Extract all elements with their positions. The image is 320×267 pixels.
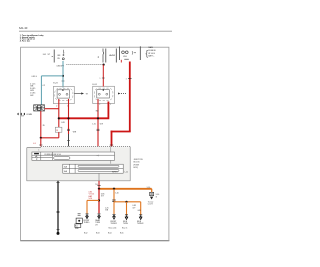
red lamp feed	[98, 189, 100, 214]
svg-text:0.85: 0.85	[61, 122, 65, 124]
svg-text:E-6: E-6	[75, 226, 78, 228]
combination switch text	[17, 113, 25, 116]
ground dot	[57, 232, 60, 235]
col2 connector + lamp	[86, 214, 89, 219]
svg-text:1: 1	[110, 104, 111, 106]
svg-text:Rear comb: Rear comb	[109, 228, 117, 230]
svg-text:turn R: turn R	[148, 203, 154, 206]
svg-text:MAIN: MAIN	[148, 46, 153, 49]
svg-text:—(: —(	[97, 155, 100, 157]
relay U1 inner rect	[57, 90, 69, 98]
svg-text:FUSE 80: FUSE 80	[148, 50, 155, 52]
connector bar pair	[102, 49, 105, 63]
relay U1 stadium	[55, 88, 73, 100]
svg-text:1: 1	[126, 78, 127, 80]
relay U2 inner rect	[97, 90, 110, 98]
tick on feed	[128, 77, 132, 79]
node dot	[40, 137, 42, 139]
svg-text:E-53: E-53	[96, 232, 99, 234]
fuse element oval	[54, 157, 70, 160]
svg-text:TURN R: TURN R	[111, 223, 118, 225]
svg-text:5-16: 5-16	[115, 193, 118, 195]
orange mid drop	[113, 189, 115, 214]
connector on mid drop	[112, 199, 116, 201]
red horizontal at 137.5	[41, 137, 59, 139]
svg-text:W 3.0 B: W 3.0 B	[148, 53, 155, 55]
node on bus2	[125, 201, 127, 203]
black drop from block to orange bus	[98, 173, 100, 181]
relay U2 box	[93, 86, 115, 103]
relay U2 contacts	[98, 93, 100, 95]
col5 connector + lamp	[125, 215, 128, 220]
node on red	[98, 199, 100, 201]
fuse out down	[58, 132, 60, 138]
dark fusible link bar	[34, 153, 39, 154]
svg-text:E-52: E-52	[84, 232, 87, 234]
svg-text:WIPER: WIPER	[112, 171, 118, 173]
svg-text:0.85 G: 0.85 G	[32, 76, 38, 78]
relay U2 stadium	[94, 88, 113, 100]
svg-text:BATT +: BATT +	[148, 55, 154, 58]
orange bus	[99, 188, 152, 190]
svg-text:SW: SW	[21, 116, 24, 118]
connector bar C	[115, 49, 117, 63]
svg-text:L-11: L-11	[125, 171, 128, 173]
svg-text:1.25: 1.25	[92, 124, 96, 126]
tick pin B bottom	[67, 139, 70, 141]
gray feed inside block	[110, 146, 112, 152]
connector (hatched)	[34, 105, 45, 111]
red drop to junction block	[40, 138, 42, 147]
svg-text:1: 1	[67, 106, 68, 108]
lower table B	[63, 164, 123, 173]
dashed junction block outline top	[41, 145, 131, 147]
svg-text:SW: SW	[112, 55, 115, 57]
connector bar A	[53, 50, 55, 63]
teal wire vertical left	[40, 76, 42, 105]
column labels	[75, 224, 81, 228]
svg-text:5-16: 5-16	[147, 187, 150, 189]
svg-text:2: 2	[99, 104, 100, 106]
orange branch	[87, 199, 99, 201]
header rule	[19, 30, 172, 32]
svg-text:Rear m: Rear m	[122, 228, 128, 230]
col1 connector box	[78, 213, 81, 215]
tick	[56, 181, 59, 183]
col6 connector + lamp	[139, 215, 142, 220]
svg-text:TURN L: TURN L	[84, 222, 90, 224]
svg-text:85: 85	[43, 125, 45, 127]
tick	[39, 144, 42, 146]
tick on that wire	[102, 77, 105, 79]
branch drop left	[86, 200, 88, 213]
junction block outer box	[27, 147, 130, 180]
svg-text:6A1-30: 6A1-30	[19, 26, 28, 30]
svg-text:4 2: 4 2	[42, 85, 45, 87]
junction dots on bus	[58, 117, 60, 119]
svg-text:1: 1	[100, 78, 101, 80]
svg-text:TURN R: TURN R	[137, 223, 144, 225]
red wire from dashed node into relay U2	[102, 65, 104, 87]
col3 connector + lamp	[98, 214, 101, 219]
U2 pin B thick corner to bus	[59, 102, 109, 119]
svg-text:4. Fuse box: 4. Fuse box	[20, 39, 31, 42]
svg-text:BOX): BOX)	[134, 167, 139, 169]
U1 pin B	[68, 99, 70, 134]
relay pins red: U1 pin A	[58, 99, 60, 127]
node at dashed end	[103, 64, 105, 66]
teal wire vertical to relay 1	[62, 80, 65, 82]
arrow below	[150, 197, 153, 200]
fuse F1 box	[55, 127, 62, 132]
bus node at red feed	[98, 188, 100, 190]
arrow + dots right of U2	[118, 93, 121, 95]
feed step left	[111, 131, 131, 133]
svg-text:SW: SW	[96, 111, 99, 113]
bus2 drop mid	[126, 202, 128, 215]
thick red feed from battery	[129, 62, 131, 132]
relay U1 contacts	[59, 93, 61, 95]
ground wire black	[57, 181, 59, 233]
svg-text:JUNCTION: JUNCTION	[134, 159, 144, 161]
red from connector down	[40, 111, 42, 138]
svg-text:5-16: 5-16	[89, 198, 93, 200]
relay U1 box	[53, 86, 74, 103]
second orange bus	[114, 201, 141, 203]
connector marks	[57, 210, 60, 212]
fuse table A	[32, 152, 115, 160]
bus node mid	[113, 188, 115, 190]
svg-text:E-54: E-54	[108, 232, 111, 234]
symbol in second row	[35, 156, 37, 157]
black continuation pin B	[68, 134, 70, 146]
relay U2 top terminal dot	[103, 89, 105, 91]
svg-text:FUSIBLE LINK 0.5G: FUSIBLE LINK 0.5G	[45, 154, 62, 156]
arrow out of relay U1	[74, 93, 81, 95]
svg-text:2: 2	[56, 106, 57, 108]
battery group	[119, 47, 121, 61]
svg-text:TURN: TURN	[123, 223, 128, 225]
teal wire horizontal	[41, 75, 63, 77]
bus2 drop right	[140, 202, 142, 215]
svg-text:OFF: OFF	[57, 55, 60, 57]
svg-text:COMB: COMB	[26, 114, 32, 116]
node teal junction	[62, 75, 64, 77]
bus right end down	[151, 189, 153, 193]
diagram frame	[20, 240, 169, 242]
feed down into junction block	[111, 131, 113, 147]
svg-text:E-55: E-55	[120, 232, 123, 234]
svg-text:(FUSE: (FUSE	[134, 164, 140, 166]
relay U1 top terminal dot	[62, 89, 64, 91]
red horizontal to pin A	[45, 108, 59, 110]
inline connector on pin B wire	[67, 128, 70, 130]
col4 connector + lamp	[113, 214, 116, 219]
U2 pin A down to block	[97, 99, 99, 146]
svg-text:BLOCK: BLOCK	[134, 162, 141, 164]
dashed tie line	[66, 64, 103, 66]
